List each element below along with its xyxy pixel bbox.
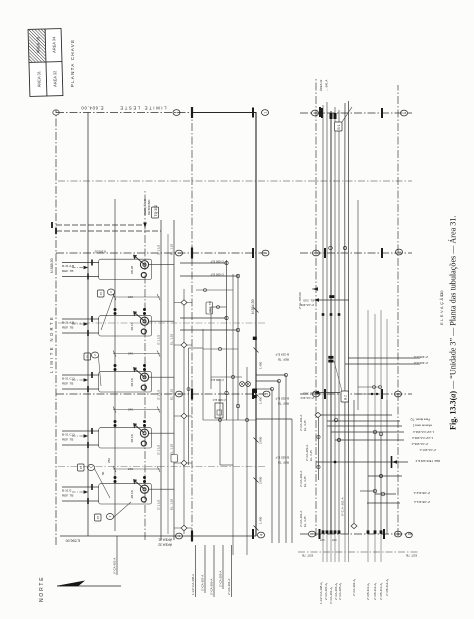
svg-text:B·2: B·2 [344,395,348,400]
svg-text:EL. 3,45: EL. 3,45 [303,476,307,487]
svg-text:NORTE: NORTE [39,576,45,602]
dark blob on south edge [253,389,258,394]
svg-text:LIMITE LESTE E.604,00: LIMITE LESTE E.604,00 [81,106,167,111]
svg-text:1.1/2″-CA-304-A: 1.1/2″-CA-304-A [413,430,434,434]
top bubble on east edge [53,110,59,115]
svg-text:2″-CB-314-A₁: 2″-CB-314-A₁ [385,579,389,596]
equipment box [215,403,223,418]
svg-text:15: 15 [86,355,90,359]
svg-text:EL. 1,10: EL. 1,10 [170,443,174,455]
svg-text:1: 1 [263,111,267,113]
svg-text:REF. TB: REF. TB [62,438,73,442]
svg-text:PLANTA CHAVE: PLANTA CHAVE [70,39,75,87]
svg-text:2″-CB-313-A₁: 2″-CB-313-A₁ [379,583,383,600]
svg-text:240: 240 [128,467,133,471]
continuation arrows off big pipes [318,300,349,480]
pump unit B-31B [99,312,152,336]
svg-text:240: 240 [128,352,133,356]
svg-text:4: 4 [259,534,263,536]
elevation columns [300,113,412,534]
west boundary of elevation [298,551,418,553]
svg-text:2: 2 [397,251,401,253]
svg-text:2″-CB-311-A: 2″-CB-311-A [414,500,430,504]
svg-text:2″-CA-304-A₁: 2″-CA-304-A₁ [352,579,356,596]
svg-text:2″-CA-306-A: 2″-CA-306-A [210,579,214,595]
svg-text:EST. 7B: EST. 7B [406,554,417,558]
horizontal grid row line [191,113,193,536]
east limit / frame right edge [56,112,193,114]
svg-text:15: 15 [99,292,103,296]
pump centre line [144,190,146,540]
west leader stubs [323,534,381,562]
elevation risers / drops [316,358,420,503]
svg-text:6″-C.A.-301-A: 6″-C.A.-301-A [341,497,345,516]
svg-text:15: 15 [96,516,100,520]
REF. TB pump labels with arrows [62,264,75,498]
svg-text:LIMITE NORTE: LIMITE NORTE [49,315,54,373]
plan pipe riser x289 [180,329,238,331]
dimension slash ticks on south edge [254,308,259,531]
svg-text:ÁREA 33: ÁREA 33 [35,36,40,53]
suction line through pumps [114,199,116,531]
svg-text:2B,1B: 2B,1B [130,490,134,498]
svg-text:4: 4 [177,535,181,537]
pump unit B-31A [99,255,152,279]
svg-text:∅ 1.1/2: ∅ 1.1/2 [157,500,161,510]
svg-text:4: 4 [396,533,400,535]
svg-text:1.1/2″-CA-308-A₁: 1.1/2″-CA-308-A₁ [319,582,323,604]
svg-text:EL. 1,10: EL. 1,10 [170,498,174,510]
svg-text:1.400: 1.400 [259,361,263,369]
plan pipe riser x356 [180,262,227,264]
left-half lower pipes [368,400,387,534]
elevation grid bubbles [309,110,413,538]
flange dot pairs between pumps [114,308,147,483]
drop pipe labels below elevation [410,355,440,504]
column beam ticks [320,108,385,539]
svg-text:B-31 E: B-31 E [62,489,71,493]
svg-text:2″-CB-311-A₁: 2″-CB-311-A₁ [366,583,370,600]
svg-text:2″-305-A-A: 2″-305-A-A [414,355,428,359]
diamond valves on header [181,300,187,531]
svg-text:REF. TB: REF. TB [62,494,73,498]
svg-text:250: 250 [107,458,111,463]
svg-text:B·1: B·1 [337,124,341,129]
svg-text:ÁREA 32: ÁREA 32 [52,70,57,87]
svg-text:REF. TB: REF. TB [62,269,73,273]
heavy pipe [330,111,332,534]
left margin line labels [319,579,389,604]
svg-text:240: 240 [332,538,337,542]
svg-text:6″-CA-301-A₁: 6″-CA-301-A₁ [329,587,333,604]
svg-text:E.596,00: E.596,00 [66,539,80,543]
svg-text:EL. 3,05: EL. 3,05 [303,299,314,303]
svg-text:B-325 E,F: B-325 E,F [275,397,289,401]
svg-text:2″-CA-306-A: 2″-CA-306-A [412,442,428,446]
flow arrowheads into header [84,266,89,494]
svg-text:ÁREA 31: ÁREA 31 [36,70,41,87]
svg-text:4: 4 [310,533,314,535]
svg-text:Fig. 13.3(a) — “Unidade 3” — P: Fig. 13.3(a) — “Unidade 3” — Planta das … [448,216,458,430]
grid bubbles at column bottoms [258,110,271,538]
intermediate grid line A2 [58,180,412,182]
key-plan legend box [28,29,63,97]
svg-text:2″-CA-307-A: 2″-CA-307-A [201,575,205,591]
leader at east end [342,107,352,122]
svg-text:∅ 600 E,F: ∅ 600 E,F [212,398,226,402]
elbow circles [225,261,240,407]
svg-text:1.400: 1.400 [259,516,263,524]
bubble digits [175,111,269,537]
svg-text:1.1/2″-CA-308-A: 1.1/2″-CA-308-A [191,574,195,595]
svg-text:REF. TB: REF. TB [278,461,289,465]
dimension lines between pumps [113,294,160,472]
suction stubs above pumps [62,263,99,502]
tag box on heavy pipe [335,122,343,131]
pump unit B-31E [99,480,152,504]
svg-text:EL. 1,10: EL. 1,10 [170,333,174,345]
svg-text:2B,1B: 2B,1B [130,378,134,386]
pipes south of frame [272,375,292,543]
svg-text:1: 1 [402,112,406,114]
svg-text:3: 3 [265,393,269,395]
black flange pair on heavy pipe + tag [328,356,333,363]
TQ-302 tag box [152,207,159,218]
svg-text:2″-CB-312-A: 2″-CB-312-A [414,491,430,495]
svg-text:2″-CA-307-A: 2″-CA-307-A [420,448,436,452]
pipe size labels on headers [157,243,174,510]
svg-text:N.584,50: N.584,50 [251,299,255,314]
REF tag in plan [206,302,213,314]
svg-text:1: 1 [108,515,112,517]
svg-text:1: 1 [313,112,317,114]
discharge header 2 [173,220,175,540]
branch ticks on suction header [88,260,92,505]
svg-text:2″-CA-310: 2″-CA-310 [300,396,314,400]
svg-text:EL. 3,05: EL. 3,05 [303,392,314,396]
svg-text:2B,1B: 2B,1B [130,322,134,330]
svg-text:1: 1 [175,111,179,113]
svg-text:6″-CA-301-A: 6″-CA-301-A [113,558,117,574]
dimension text row below south edge [259,361,263,524]
svg-text:REF. TB B-329 E,F: REF. TB B-329 E,F [415,459,440,463]
svg-text:REF. TB: REF. TB [62,326,73,330]
plan frame top edge [87,113,89,537]
pipe y354 left part [353,400,355,523]
riser callout texts above top chord [298,292,313,527]
plan pipe run y226 [226,260,228,420]
grid column line C [56,393,266,395]
instrument tag + balloon pairs [78,289,115,521]
spec break tag on header [171,455,178,463]
svg-text:2B,1B: 2B,1B [130,266,134,274]
svg-text:80: 80 [101,471,105,475]
svg-text:∅ 1.1/2: ∅ 1.1/2 [157,390,161,400]
legend labels [35,36,57,88]
hatched cell ÁREA 33 [29,1,46,79]
svg-text:2″ EL.705,00: 2″ EL.705,00 [298,292,302,309]
svg-text:REF. TB: REF. TB [278,358,289,362]
east end heavy flanges [330,113,337,119]
flow arrow on centre line [143,223,147,229]
drain funnels [240,382,251,387]
svg-text:efluente área 2: efluente área 2 [412,424,432,428]
svg-text:TQ·302: TQ·302 [154,205,158,217]
plan pipe run y238 [237,274,239,420]
svg-text:ÁREA 32: ÁREA 32 [158,543,172,547]
svg-text:2″-CA-305-A: 2″-CA-305-A [219,571,223,587]
svg-text:2: 2 [93,354,97,356]
discharge header 1 [160,220,162,540]
black flange on bundle mid [329,295,334,298]
svg-text:EL. 3,45: EL. 3,45 [309,450,313,461]
svg-text:3: 3 [177,393,181,395]
svg-text:ÁREA 34: ÁREA 34 [51,36,56,53]
svg-text:1.400: 1.400 [259,396,263,404]
svg-text:2″-CA-309: 2″-CA-309 [300,303,314,307]
connectors to frame [256,375,292,419]
plan piping mesh lower-middle [189,274,257,555]
intermediate grid line C2 [58,466,266,468]
pump discharge drops to headers [149,265,174,490]
svg-text:N.588,50: N.588,50 [50,258,54,273]
svg-text:REF. TB: REF. TB [62,382,73,386]
svg-text:EL. 1,10: EL. 1,10 [170,243,174,255]
plan pipe riser x301 [180,317,227,319]
svg-text:REF. TB: REF. TB [208,301,212,312]
svg-text:∅ 1.1/2: ∅ 1.1/2 [157,335,161,345]
grid column line B [56,252,266,254]
arrow down at x157 [392,460,397,463]
crossing ticks at north limit [52,222,56,234]
svg-text:Para abast. TQ: Para abast. TQ [410,418,430,422]
svg-text:2″-CA-305-A₁: 2″-CA-305-A₁ [338,583,342,600]
svg-text:1.1/2″-CA-305-A: 1.1/2″-CA-305-A [412,436,433,440]
svg-text:B-325 E,F: B-325 E,F [275,456,289,460]
dim marks under west end [320,538,337,542]
SUCÇÃO E RETORNO label [142,199,151,215]
svg-text:3,30: 3,30 [440,290,444,297]
plan pipe riser x343 [180,275,238,277]
svg-text:15: 15 [79,466,83,470]
svg-text:2: 2 [109,291,113,293]
svg-text:← B41.A: ← B41.A [325,80,329,91]
svg-text:ÁREA 31: ÁREA 31 [158,538,172,542]
svg-text:B-329 E,F: B-329 E,F [275,353,289,357]
svg-text:2: 2 [314,252,318,254]
pipe bundle full width [323,102,339,534]
svg-text:240: 240 [128,295,133,299]
west frame edge [60,535,256,537]
svg-text:ÁREA 32: ÁREA 32 [319,79,323,91]
svg-text:2″-CA-304-A: 2″-CA-304-A [227,579,231,595]
svg-text:EL. 1,10: EL. 1,10 [170,388,174,400]
svg-text:∅ 1.1/2: ∅ 1.1/2 [157,445,161,455]
arrow into top chord [313,287,319,291]
svg-text:EL. 3,45: EL. 3,45 [303,516,307,527]
svg-text:REF. TB: REF. TB [278,402,289,406]
svg-text:2″-304-A-A: 2″-304-A-A [414,361,428,365]
south frame edge [255,113,257,537]
TQ-302 suction/return lines from north [56,225,161,231]
continuation labels to ÁREA 32 [319,79,329,91]
north limit line [55,110,57,545]
svg-text:2B,1B: 2B,1B [130,434,134,442]
large bore double line pipe [344,103,346,534]
west end flange blobs [322,530,383,533]
svg-text:2″-CA-307-A₁: 2″-CA-307-A₁ [324,583,328,600]
svg-text:2.800: 2.800 [259,436,263,444]
svg-text:N.585,50: N.585,50 [94,250,106,254]
elevation top chord [315,77,317,536]
svg-text:240: 240 [320,538,325,542]
balloon leaders [94,293,131,518]
discharge header 3 [167,234,169,534]
svg-text:2″-CB-312-A₁: 2″-CB-312-A₁ [373,583,377,600]
match ticks at grid crossings [191,107,193,542]
north arrow [39,576,121,602]
svg-text:∅ 600 E,F: ∅ 600 E,F [210,378,224,382]
svg-text:3: 3 [396,393,400,395]
svg-text:2: 2 [177,252,181,254]
svg-text:EST. 7B: EST. 7B [302,554,313,558]
elevation bottom chord [397,85,399,536]
valve header [183,289,185,534]
svg-text:2.800: 2.800 [259,476,263,484]
grid bubbles on row line [173,110,183,539]
svg-text:EL. 3,45: EL. 3,45 [303,420,307,431]
symbols on risers [315,246,385,528]
svg-text:2: 2 [264,252,268,254]
valve stems [174,303,192,529]
west exit pipes with labels [117,536,232,597]
pump unit B-31D [99,424,152,448]
svg-text:RETORNO: RETORNO [147,199,151,215]
REF. TB note under grid bubble [275,353,289,465]
svg-text:∅ 1.1/2: ∅ 1.1/2 [157,245,161,255]
pump unit B-31C [99,368,152,392]
svg-text:240: 240 [128,408,133,412]
intermediate grid line B2 [58,322,266,324]
